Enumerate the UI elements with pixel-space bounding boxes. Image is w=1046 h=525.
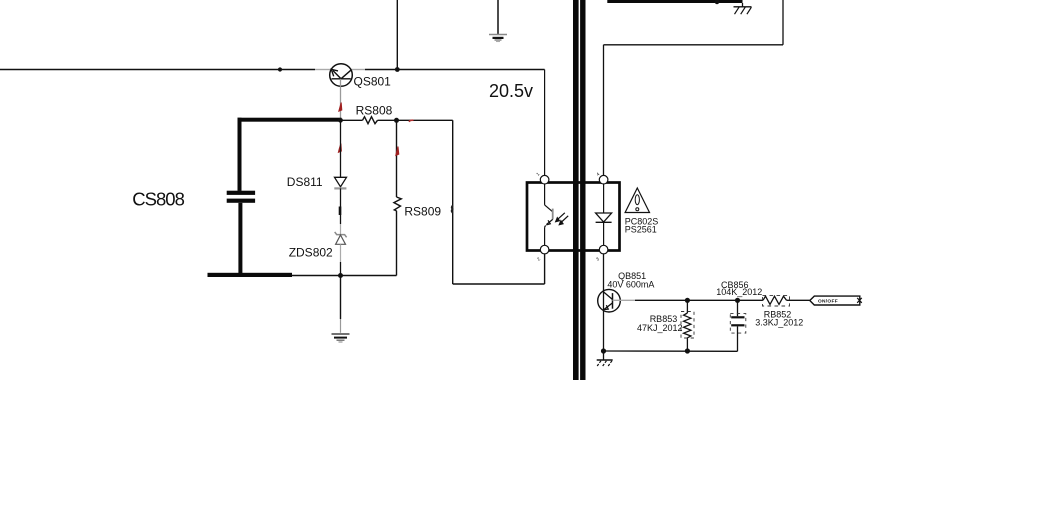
ground chassis (below QB851) [597,351,613,366]
svg-text:QS801: QS801 [354,75,392,89]
wire grey segment left of QS801 [315,69,331,71]
node junction RS808 right [394,118,399,123]
transistor QB851 [598,289,621,312]
wire vertical to top ground [497,0,499,34]
wire down to optocoupler pin 1 [544,70,546,176]
svg-text:3.3KJ_2012: 3.3KJ_2012 [755,317,803,327]
wire grey segment right of QS801 [352,69,366,71]
connector flag ON/OFF [810,296,862,305]
isolation barrier bar left [573,0,579,380]
svg-text:47KJ_2012: 47KJ_2012 [637,323,683,333]
wire down to optocoupler pin 4 [603,45,605,176]
zener ZDS802 [335,224,347,276]
svg-text:RS809: RS809 [404,204,441,218]
ground chassis (top right) [734,3,752,14]
pin circle 2 (bottom-left) [540,245,549,254]
node junction RB853 bottom [685,348,690,353]
red tick on wire [409,120,414,121]
wire horizontal y284 [453,283,545,285]
wire up to optocoupler pin 2 [544,254,546,284]
photodiode inside optocoupler [596,184,612,245]
capacitor CB856 [730,300,746,351]
wire vertical from top edge [396,0,398,70]
svg-text:RS808: RS808 [356,103,393,117]
diode DS811 [334,120,346,224]
wire right loop horizontal [604,44,784,46]
svg-text:ON/OFF: ON/OFF [818,298,838,304]
resistor RB853 [681,300,694,351]
svg-text:ZDS802: ZDS802 [289,245,333,259]
node junction at ground [601,348,606,353]
red arrow below QS801 junction [338,144,341,153]
blob mark on vertical wire [452,206,453,213]
wire bottom net right side [604,350,738,352]
pin circle 1 (top-left) [540,175,549,184]
red arrow mark on collector [339,103,342,112]
node junction top [395,67,400,72]
wire top horizontal to corner [365,69,545,71]
svg-text:CS808: CS808 [132,189,184,210]
wire QB851 base (grey then black) [613,299,636,301]
thick wire vertical CS808 top lead [238,118,242,191]
red arrow on RS809 wire [396,147,399,156]
isolation barrier bar right [580,0,585,380]
svg-text:PS2561: PS2561 [625,225,657,235]
node junction RS808 left [338,118,343,123]
node junction bottom [338,273,343,278]
thick wire bottom of CS808 loop [208,273,293,277]
wire main top horizontal left [0,69,315,71]
warning triangle [625,188,649,213]
pin circle 3 (bottom-right) [599,245,608,254]
thick bus top right [607,0,742,3]
ground earth (below diodes) [332,334,350,342]
wire right loop vertical [782,0,784,45]
wire bottom left net [292,275,397,277]
wire QB851 emitter down [603,310,605,351]
LED inside optocoupler [545,184,553,245]
wire from RS808 to corner [397,119,453,121]
wire QS801 collector (grey) [340,86,342,119]
pin circle 4 (top-right) [599,175,608,184]
svg-text:104K_2012: 104K_2012 [716,287,762,297]
capacitor CS808 plates [227,191,255,195]
node dot on bus [715,0,720,4]
svg-text:20.5v: 20.5v [489,81,533,101]
thick wire top of CS808 loop [238,118,342,122]
thick wire vertical CS808 bottom lead [238,203,242,277]
ground earth (top middle) [489,35,507,42]
node dot on top wire [278,67,282,71]
svg-text:40V 600mA: 40V 600mA [607,280,654,290]
optocoupler U1 box [527,183,620,251]
wire corner down to y284 [452,120,454,284]
node junction CB856 top [735,298,740,303]
resistor RB852 [763,295,810,306]
wire ground stub [340,276,342,320]
node junction RB853 top [685,298,690,303]
resistor RS809 [394,120,401,275]
transistor QS801 [330,64,353,87]
resistor RS808 [341,117,397,124]
wire optocoupler pin3 down to QB851 [603,254,605,292]
LED light arrows [556,213,569,225]
svg-text:DS811: DS811 [287,175,323,189]
